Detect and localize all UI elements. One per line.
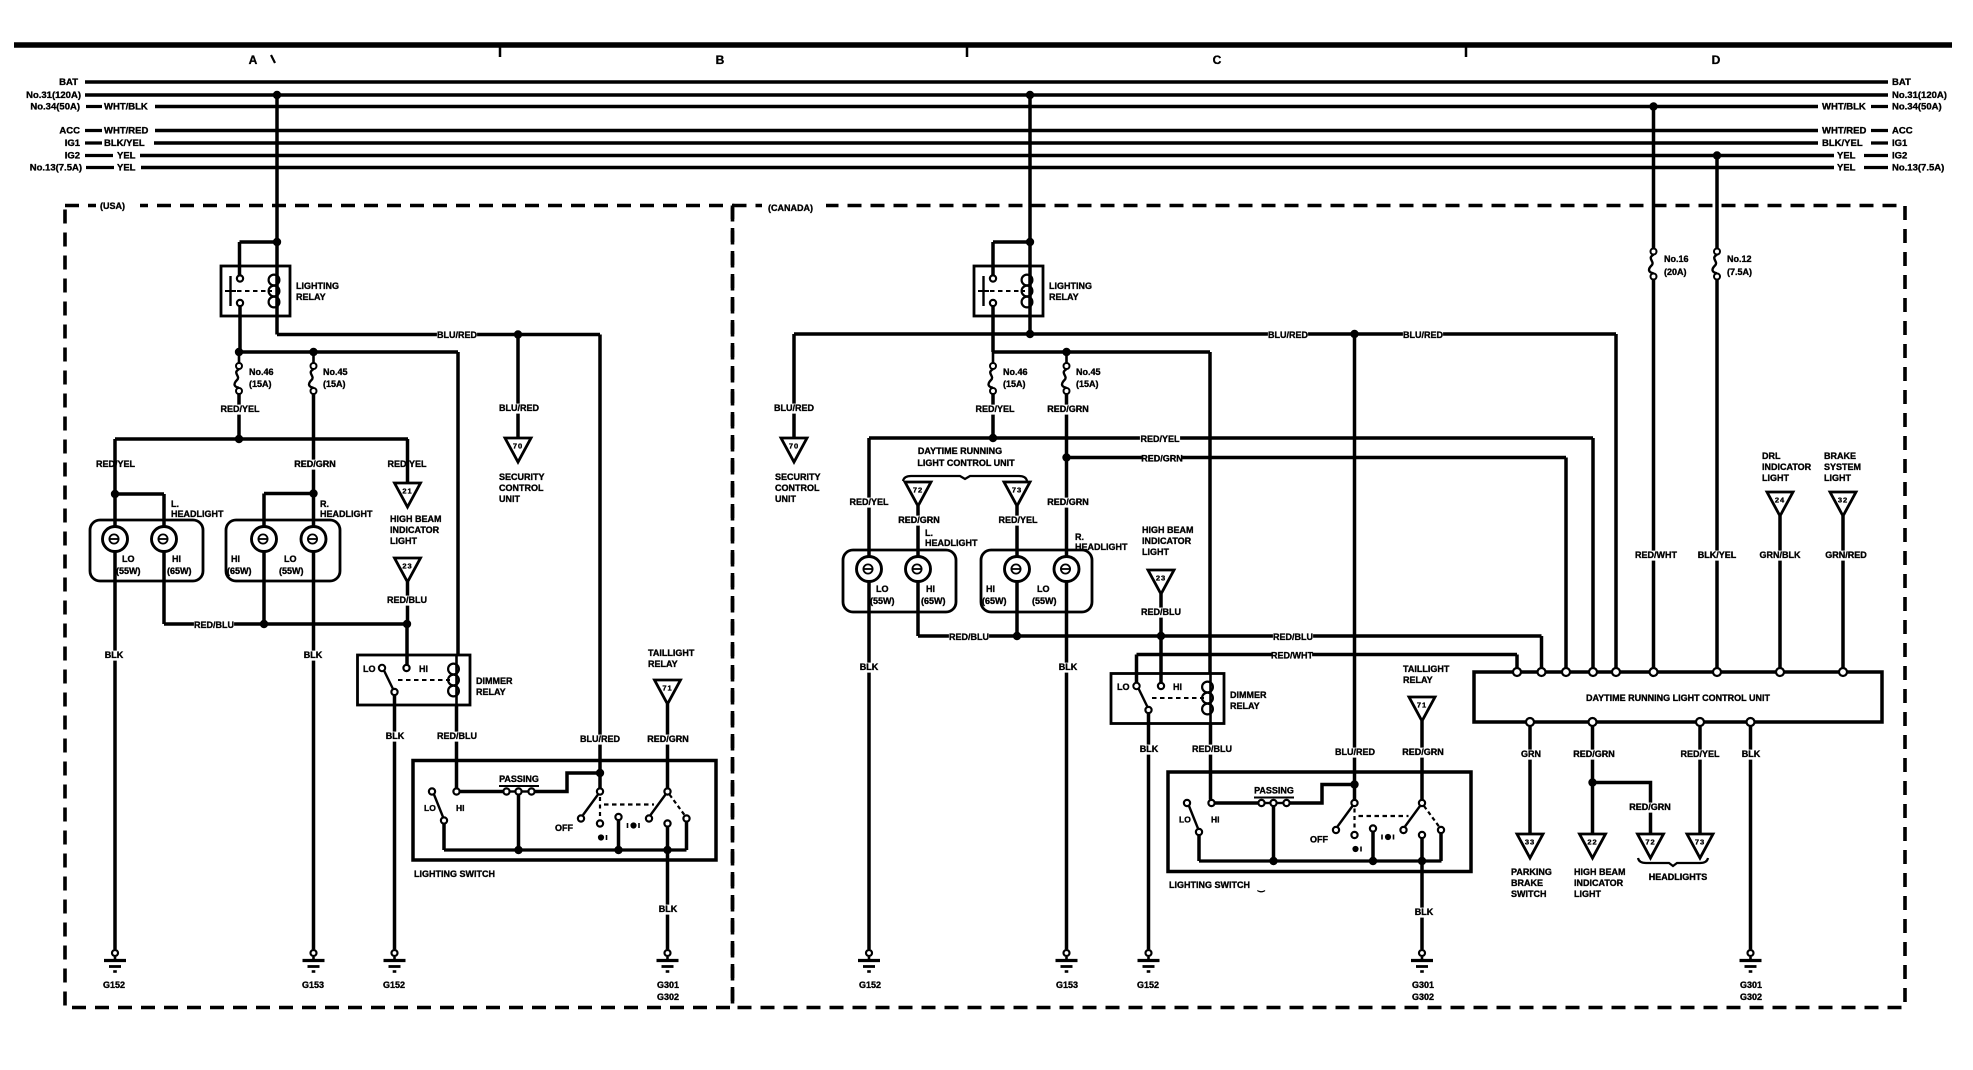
wire USA L.headlight LO feed	[113, 439, 117, 539]
wire USA BLU/RED to lighting switch	[598, 335, 602, 789]
net label BLK taillight Canada	[1415, 908, 1434, 918]
svg-text:RED/YEL: RED/YEL	[220, 404, 260, 414]
net label RED/GRN Canada right	[1048, 498, 1088, 508]
junction passing BLU/RED Canada	[1350, 780, 1358, 788]
net label RED/BLU inline2 Canada	[1273, 633, 1313, 643]
svg-text:32: 32	[1838, 496, 1848, 505]
wire Canada RED/BLU horizontal	[918, 634, 1542, 638]
svg-text:73: 73	[1012, 486, 1022, 495]
svg-text:23: 23	[402, 562, 412, 571]
wire 72 to L HI bulb	[916, 506, 920, 557]
wire Canada BLU/RED to switch	[1353, 334, 1357, 800]
junction passing drop to bus USA	[514, 846, 522, 854]
unit DAYTIME RUNNING LIGHT CONTROL UNIT box	[1474, 672, 1882, 722]
svg-text:RED/GRN: RED/GRN	[647, 734, 689, 744]
net label RED/WHT No.16	[1636, 551, 1676, 561]
svg-text:(15A): (15A)	[1003, 379, 1026, 389]
fuse No.46 (15A) USA	[238, 352, 241, 363]
svg-text:G152: G152	[859, 980, 881, 990]
svg-text:(55W): (55W)	[279, 566, 304, 576]
svg-text:ACC: ACC	[59, 126, 80, 137]
pin DRL bottom BLK	[1747, 718, 1755, 726]
svg-text:No.45: No.45	[1076, 367, 1101, 377]
fuse No.45 (15A) USA	[312, 352, 315, 363]
pin rotary2 mid contact Canada	[1419, 832, 1425, 838]
svg-text:WHT/BLK: WHT/BLK	[104, 102, 148, 113]
svg-text:DAYTIME RUNNING: DAYTIME RUNNING	[918, 446, 1002, 456]
svg-text:LIGHT CONTROL UNIT: LIGHT CONTROL UNIT	[917, 458, 1015, 468]
wire dimmer coil to switch RED/BLU	[455, 705, 459, 788]
pin common switch Canada	[1196, 829, 1202, 835]
junction taillight bus Canada	[1418, 857, 1426, 865]
net label BLU/RED security Canada	[774, 404, 814, 414]
wire Canada L LO to ground	[867, 582, 871, 950]
pin rotary2 pivot Canada	[1419, 800, 1425, 806]
connector 32 brake system	[1830, 492, 1856, 516]
junction rotary1 stub bus USA	[614, 846, 622, 854]
svg-text:GRN/RED: GRN/RED	[1825, 550, 1867, 560]
net label BLK dimmer USA	[386, 732, 405, 742]
svg-text:33: 33	[1525, 838, 1535, 847]
svg-text:L.: L.	[925, 528, 933, 538]
svg-text:BLK: BLK	[1059, 662, 1078, 672]
pin DRL top GRN/BLK	[1776, 668, 1784, 676]
bulb USA R HI 65W	[252, 527, 277, 552]
svg-text:YEL: YEL	[117, 163, 136, 174]
svg-text:HI: HI	[1211, 815, 1220, 825]
svg-text:(65W): (65W)	[227, 566, 252, 576]
svg-text:RED/GRN: RED/GRN	[1047, 497, 1089, 507]
wire rotary2 arm Canada	[1405, 806, 1420, 827]
junction USA fuse row left	[235, 348, 243, 356]
wire Canada security drop	[792, 334, 796, 438]
svg-text:No.31(120A): No.31(120A)	[1892, 90, 1947, 101]
pin rotary1 OFF contact USA	[578, 815, 584, 821]
wire 32 to DRL unit	[1841, 516, 1845, 668]
svg-text:No.34(50A): No.34(50A)	[30, 102, 80, 113]
wire Canada fuse row horizontal	[993, 350, 1210, 354]
svg-text:PASSING: PASSING	[1254, 786, 1294, 796]
svg-text:(55W): (55W)	[116, 566, 141, 576]
wire rotary2 right stub USA	[685, 822, 689, 850]
ground G153 Canada	[1064, 950, 1070, 956]
connector 21 USA high beam	[395, 483, 421, 507]
net label RED/YEL Canada left	[849, 498, 889, 508]
net label RED/BLU dimmer Canada	[1192, 745, 1232, 755]
pin common dimmer USA	[391, 689, 397, 695]
svg-text:GRN/BLK: GRN/BLK	[1760, 550, 1801, 560]
svg-text:HI: HI	[172, 554, 181, 564]
svg-text:LIGHTING SWITCH: LIGHTING SWITCH	[1169, 880, 1250, 890]
svg-text:LO: LO	[1117, 682, 1130, 692]
bracket over connectors 72 73	[903, 476, 1027, 481]
svg-text:BRAKE: BRAKE	[1511, 878, 1543, 888]
svg-text:D: D	[1712, 53, 1721, 67]
svg-text:BLK: BLK	[1140, 744, 1159, 754]
svg-text:LO: LO	[1037, 584, 1050, 594]
svg-text:RELAY: RELAY	[1049, 292, 1079, 302]
relay USA dimmer relay	[358, 655, 471, 705]
net label RED/BLU dimmer USA	[437, 732, 477, 742]
wire highbeam to dimmer HI Canada	[1159, 636, 1163, 683]
net label BLK USA left	[105, 651, 124, 661]
pin rotary2 right contact Canada	[1438, 827, 1444, 833]
svg-text:RED/YEL: RED/YEL	[975, 404, 1015, 414]
net label RED/GRN taillight Canada	[1403, 748, 1443, 758]
contact dot rotary1 USA	[598, 834, 604, 840]
pin rotary1 mid contact Canada	[1351, 832, 1357, 838]
wire USA RED/YEL headlight feed horizontal	[115, 437, 408, 441]
wire BLU/RED into DRL unit	[1614, 334, 1618, 668]
svg-text:(15A): (15A)	[323, 379, 346, 389]
svg-text:BLK: BLK	[1742, 749, 1761, 759]
svg-text:G153: G153	[302, 980, 324, 990]
svg-text:71: 71	[1417, 701, 1427, 710]
junction USA feed on No.31 bus	[273, 91, 281, 99]
pin passing1 USA	[503, 788, 509, 794]
svg-text:PARKING: PARKING	[1511, 867, 1552, 877]
wire USA BLU/RED horizontal	[277, 333, 600, 337]
svg-text:72: 72	[913, 486, 923, 495]
junction USA R HI to RED/BLU	[260, 620, 268, 628]
svg-text:R.: R.	[1075, 532, 1084, 542]
pin passing1 Canada	[1258, 800, 1264, 806]
junction Canada feed on No.31 bus	[1026, 91, 1034, 99]
svg-text:LIGHTING: LIGHTING	[1049, 281, 1092, 291]
svg-text:TAILLIGHT: TAILLIGHT	[648, 648, 695, 658]
relay USA lighting relay	[221, 266, 290, 316]
ground G152 Canada left	[866, 950, 872, 956]
net label RED/YEL right branch	[387, 460, 427, 470]
svg-text:BLK/YEL: BLK/YEL	[1822, 138, 1863, 149]
connector 24 DRL indicator	[1767, 492, 1793, 516]
grid tick 2	[966, 47, 969, 57]
svg-text:(7.5A): (7.5A)	[1727, 267, 1752, 277]
svg-text:BLU/RED: BLU/RED	[1268, 330, 1308, 340]
wire 71 to switch USA	[666, 704, 670, 788]
junction No.16 on WHT/BLK	[1649, 102, 1657, 110]
svg-text:G152: G152	[1137, 980, 1159, 990]
svg-text:LO: LO	[284, 554, 297, 564]
pin LO dimmer USA	[379, 665, 385, 671]
svg-text:RED/BLU: RED/BLU	[1192, 744, 1232, 754]
svg-text:BLU/RED: BLU/RED	[437, 330, 477, 340]
svg-text:‿: ‿	[1257, 883, 1265, 893]
svg-text:LO: LO	[1179, 815, 1191, 825]
net label RED/GRN branch	[1630, 803, 1670, 813]
svg-text:LIGHT: LIGHT	[1762, 473, 1789, 483]
svg-text:BLK: BLK	[105, 650, 124, 660]
svg-text:RED/YEL: RED/YEL	[1140, 434, 1180, 444]
wire No.34 WHT/BLK bus	[86, 105, 102, 108]
wire dimmer common to ground	[393, 696, 397, 950]
wire DRL BLK output to ground	[1749, 726, 1753, 949]
net label RED/YEL output	[1680, 750, 1720, 760]
connector 73 Canada R headlight	[1004, 482, 1030, 506]
connector 23 USA high beam	[395, 558, 421, 582]
wire rotary2 dashed arm Canada	[1424, 806, 1439, 827]
svg-text:24: 24	[1775, 496, 1785, 505]
wire USA high beam indicator feed	[406, 439, 410, 483]
svg-text:G152: G152	[103, 980, 125, 990]
svg-text:RED/GRN: RED/GRN	[1141, 454, 1183, 464]
fuse No.45 (15A) Canada	[1064, 363, 1070, 369]
svg-text:OFF: OFF	[1310, 835, 1328, 845]
svg-text:HI: HI	[926, 584, 935, 594]
contact dot mid Canada	[1385, 834, 1391, 840]
wire RED/YEL into DRL unit	[1591, 438, 1595, 668]
wire rotary2 mid stub Canada	[1420, 839, 1424, 862]
wire passing row USA	[460, 790, 504, 794]
wire taillight output to ground USA	[666, 850, 670, 949]
component USA right headlight	[226, 520, 340, 581]
svg-text:(65W): (65W)	[921, 596, 946, 606]
svg-text:73: 73	[1695, 838, 1705, 847]
svg-text:YEL: YEL	[1837, 151, 1856, 162]
svg-text:RED/WHT: RED/WHT	[1271, 651, 1313, 661]
ground G301 G302 DRL	[1748, 950, 1754, 956]
svg-text:SECURITY: SECURITY	[499, 472, 545, 482]
wire dimmer common ground Canada	[1147, 714, 1151, 950]
wire fuse No.16 feed from WHT/BLK bus	[1652, 107, 1656, 252]
svg-text:BLU/RED: BLU/RED	[580, 734, 620, 744]
svg-text:BLK: BLK	[386, 731, 405, 741]
svg-text:LIGHT: LIGHT	[390, 536, 417, 546]
pin rotary2 left contact Canada	[1400, 827, 1406, 833]
svg-text:RED/GRN: RED/GRN	[1573, 749, 1615, 759]
svg-text:IG2: IG2	[65, 151, 80, 162]
wire rotary1 contact stub USA	[617, 821, 621, 851]
svg-text:CONTROL: CONTROL	[499, 483, 544, 493]
svg-text:BLU/RED: BLU/RED	[774, 403, 814, 413]
svg-text:HI: HI	[986, 584, 995, 594]
wire RED/WHT to dimmer LO	[1135, 655, 1139, 683]
wire switch arm USA	[434, 795, 443, 818]
bulb Canada R HI 65W	[1005, 557, 1030, 582]
wire 24 to DRL unit	[1778, 516, 1782, 668]
svg-text:RED/BLU: RED/BLU	[1273, 632, 1313, 642]
connector 70 USA security	[505, 438, 531, 462]
net label BLK Canada left	[860, 663, 879, 673]
junction RED/GRN branch	[1588, 778, 1596, 786]
svg-text:WHT/RED: WHT/RED	[1822, 126, 1866, 137]
connector 33 parking brake	[1517, 834, 1543, 858]
svg-text:WHT/RED: WHT/RED	[104, 126, 148, 137]
wire DRL GRN output	[1528, 726, 1532, 834]
svg-text:G153: G153	[1056, 980, 1078, 990]
svg-text:OFF: OFF	[555, 823, 573, 833]
wire Canada L LO feed	[867, 438, 871, 569]
junction fuse No.46 to RED/YEL	[235, 435, 243, 443]
ground G153 USA	[311, 950, 317, 956]
svg-text:HIGH BEAM: HIGH BEAM	[1574, 867, 1626, 877]
svg-text:RED/BLU: RED/BLU	[1141, 607, 1181, 617]
svg-text:BLU/RED: BLU/RED	[1335, 747, 1375, 757]
svg-text:BRAKE: BRAKE	[1824, 451, 1856, 461]
wire passing row Canada	[1215, 801, 1259, 805]
net label GRN output	[1522, 750, 1541, 760]
wire RED/GRN into DRL unit	[1564, 458, 1568, 669]
svg-text:(CANADA): (CANADA)	[768, 203, 813, 213]
pin DRL bottom RED/YEL	[1696, 718, 1704, 726]
pin common switch USA	[441, 817, 447, 823]
wire Canada R LO to ground	[1065, 582, 1069, 950]
junction Canada R HI RED/BLU	[1013, 632, 1021, 640]
wire Canada RED/WHT horizontal	[1137, 653, 1518, 657]
svg-text:C: C	[1213, 53, 1222, 67]
net label GRN/BLK	[1760, 551, 1800, 561]
svg-text:SWITCH: SWITCH	[1511, 889, 1547, 899]
svg-text:(15A): (15A)	[249, 379, 272, 389]
net label GRN/RED	[1826, 551, 1866, 561]
fuse No.12 (7.5A)	[1714, 249, 1720, 255]
wire USA dimmer coil feed	[456, 352, 460, 656]
contact dot mid USA	[630, 822, 636, 828]
svg-text:BLK: BLK	[860, 662, 879, 672]
wire passing jog USA	[535, 773, 597, 792]
wire Canada L HI down	[916, 582, 920, 637]
svg-text:RELAY: RELAY	[1403, 675, 1433, 685]
pin rotary2 left contact USA	[646, 815, 652, 821]
wire RED/WHT into DRL unit	[1515, 655, 1519, 669]
net label BLU/RED security	[499, 404, 539, 414]
pin rotary2 pivot USA	[664, 788, 670, 794]
wire Canada RED/YEL horizontal	[869, 436, 1593, 440]
svg-text:BLU/RED: BLU/RED	[499, 403, 539, 413]
pin HI dimmer Canada	[1158, 683, 1164, 689]
wire Canada BLU/RED horizontal	[794, 332, 1616, 336]
wire fuse No.12 to DRL unit	[1715, 280, 1719, 669]
pin DRL top BLU/RED	[1612, 668, 1620, 676]
svg-text:LIGHTING: LIGHTING	[296, 281, 339, 291]
svg-text:IG2: IG2	[1892, 151, 1907, 162]
svg-text:23: 23	[1156, 574, 1166, 583]
net label BLU/RED switch USA	[580, 735, 620, 745]
connector 70 Canada security	[781, 438, 807, 462]
svg-text:No.31(120A): No.31(120A)	[26, 90, 81, 101]
svg-text:LIGHT: LIGHT	[1142, 547, 1169, 557]
component Canada left headlight	[843, 550, 956, 612]
svg-text:RED/BLU: RED/BLU	[387, 595, 427, 605]
net label RED/YEL inline Canada	[1140, 435, 1180, 445]
switch USA lighting switch box	[413, 761, 716, 861]
pin passing3 USA	[528, 788, 534, 794]
pin common dimmer Canada	[1145, 707, 1151, 713]
bulb USA L LO 55W	[103, 527, 128, 552]
wire dimmer arm USA	[384, 671, 393, 690]
fuse No.46 (15A) Canada	[990, 363, 996, 369]
svg-text:HI: HI	[1173, 682, 1182, 692]
junction fuse45 RED/GRN Canada	[1062, 453, 1070, 461]
svg-text:G301: G301	[1740, 980, 1762, 990]
wire USA R HI down	[262, 552, 266, 625]
connector 71 USA taillight relay	[655, 680, 681, 704]
svg-text:DIMMER: DIMMER	[1230, 690, 1267, 700]
component Canada right headlight	[981, 550, 1092, 612]
wire RED/BLU into DRL unit	[1540, 636, 1544, 668]
net label BLK/YEL No.12	[1697, 551, 1737, 561]
svg-text:RED/YEL: RED/YEL	[849, 497, 889, 507]
wire USA fuse row horizontal	[239, 350, 458, 354]
pin rotary1 right contact USA	[615, 814, 621, 820]
wire switch bottom bus Canada	[1199, 859, 1442, 862]
relay Canada lighting relay	[974, 266, 1043, 316]
svg-text:DIMMER: DIMMER	[476, 676, 513, 686]
svg-text:RELAY: RELAY	[296, 292, 326, 302]
junction USA BLU/RED security tap	[514, 330, 522, 338]
junction Canada fuse No.45 tap	[1062, 348, 1070, 356]
svg-text:LIGHT: LIGHT	[1824, 473, 1851, 483]
svg-text:INDICATOR: INDICATOR	[390, 525, 440, 535]
wire USA relay output to fuse row	[238, 307, 242, 353]
svg-text:B: B	[716, 53, 725, 67]
pin LO switch USA	[429, 788, 435, 794]
pin pivot1 switch USA	[453, 788, 459, 794]
net label RED/GRN mid branch	[295, 460, 335, 470]
svg-text:RELAY: RELAY	[1230, 701, 1260, 711]
stray mark near A	[271, 55, 275, 63]
net label BLK output	[1742, 750, 1761, 760]
svg-text:HEADLIGHT: HEADLIGHT	[925, 538, 978, 548]
svg-text:RED/GRN: RED/GRN	[1047, 404, 1089, 414]
wire connector23 to RED/BLU	[406, 582, 410, 624]
wire USA L.headlight HI branch	[115, 492, 164, 496]
svg-text:CONTROL: CONTROL	[775, 483, 820, 493]
wire USA relay switch branch	[240, 240, 278, 244]
svg-text:BAT: BAT	[59, 77, 78, 88]
svg-text:IG1: IG1	[1892, 138, 1908, 149]
wire USA R LO to ground BLK	[312, 552, 316, 950]
wire rotary2 right stub Canada	[1439, 834, 1443, 862]
svg-text:RED/BLU: RED/BLU	[194, 620, 234, 630]
svg-text:RED/BLU: RED/BLU	[949, 632, 989, 642]
net label RED/GRN output	[1574, 750, 1614, 760]
svg-text:R.: R.	[320, 499, 329, 509]
svg-text:(65W): (65W)	[982, 596, 1007, 606]
net label RED/YEL below fuse No.46	[220, 405, 260, 415]
svg-text:HEADLIGHT: HEADLIGHT	[171, 509, 224, 519]
junction USA fuse No.45 tap	[309, 348, 317, 356]
net label BLU/RED inline1 Canada	[1268, 331, 1308, 341]
svg-text:L.: L.	[171, 499, 179, 509]
svg-text:IG1: IG1	[65, 138, 81, 149]
svg-text:RED/BLU: RED/BLU	[437, 731, 477, 741]
wire USA RED/BLU horizontal	[164, 622, 407, 626]
wire taillight output ground Canada	[1420, 861, 1424, 949]
junction rotary1 stub bus Canada	[1369, 857, 1377, 865]
pin HI dimmer USA	[403, 665, 409, 671]
ground G152 USA left	[112, 950, 118, 956]
svg-text:DAYTIME RUNNING LIGHT CONTROL: DAYTIME RUNNING LIGHT CONTROL UNIT	[1586, 693, 1771, 703]
wire common drop Canada	[1197, 836, 1201, 862]
wire feed from No.31 bus to Canada lighting relay	[1028, 95, 1032, 334]
svg-text:RED/GRN: RED/GRN	[1402, 747, 1444, 757]
wire fuse No.12 feed from IG2 bus	[1715, 156, 1719, 252]
pin DRL top GRN/RED	[1839, 668, 1847, 676]
USA region dashed box	[65, 206, 733, 1008]
svg-text:INDICATOR: INDICATOR	[1574, 878, 1624, 888]
svg-text:LO: LO	[363, 664, 376, 674]
svg-text:TAILLIGHT: TAILLIGHT	[1403, 664, 1450, 674]
CANADA region dashed box	[733, 206, 1906, 1008]
net label RED/GRN inline Canada	[1142, 454, 1182, 464]
wire DRL RED/YEL output	[1698, 726, 1702, 834]
svg-text:G302: G302	[1412, 992, 1434, 1002]
svg-text:HI: HI	[231, 554, 240, 564]
net label RED/GRN under72	[899, 516, 939, 526]
connector 71 Canada taillight	[1409, 697, 1435, 721]
net label BLU/RED USA	[437, 331, 477, 341]
